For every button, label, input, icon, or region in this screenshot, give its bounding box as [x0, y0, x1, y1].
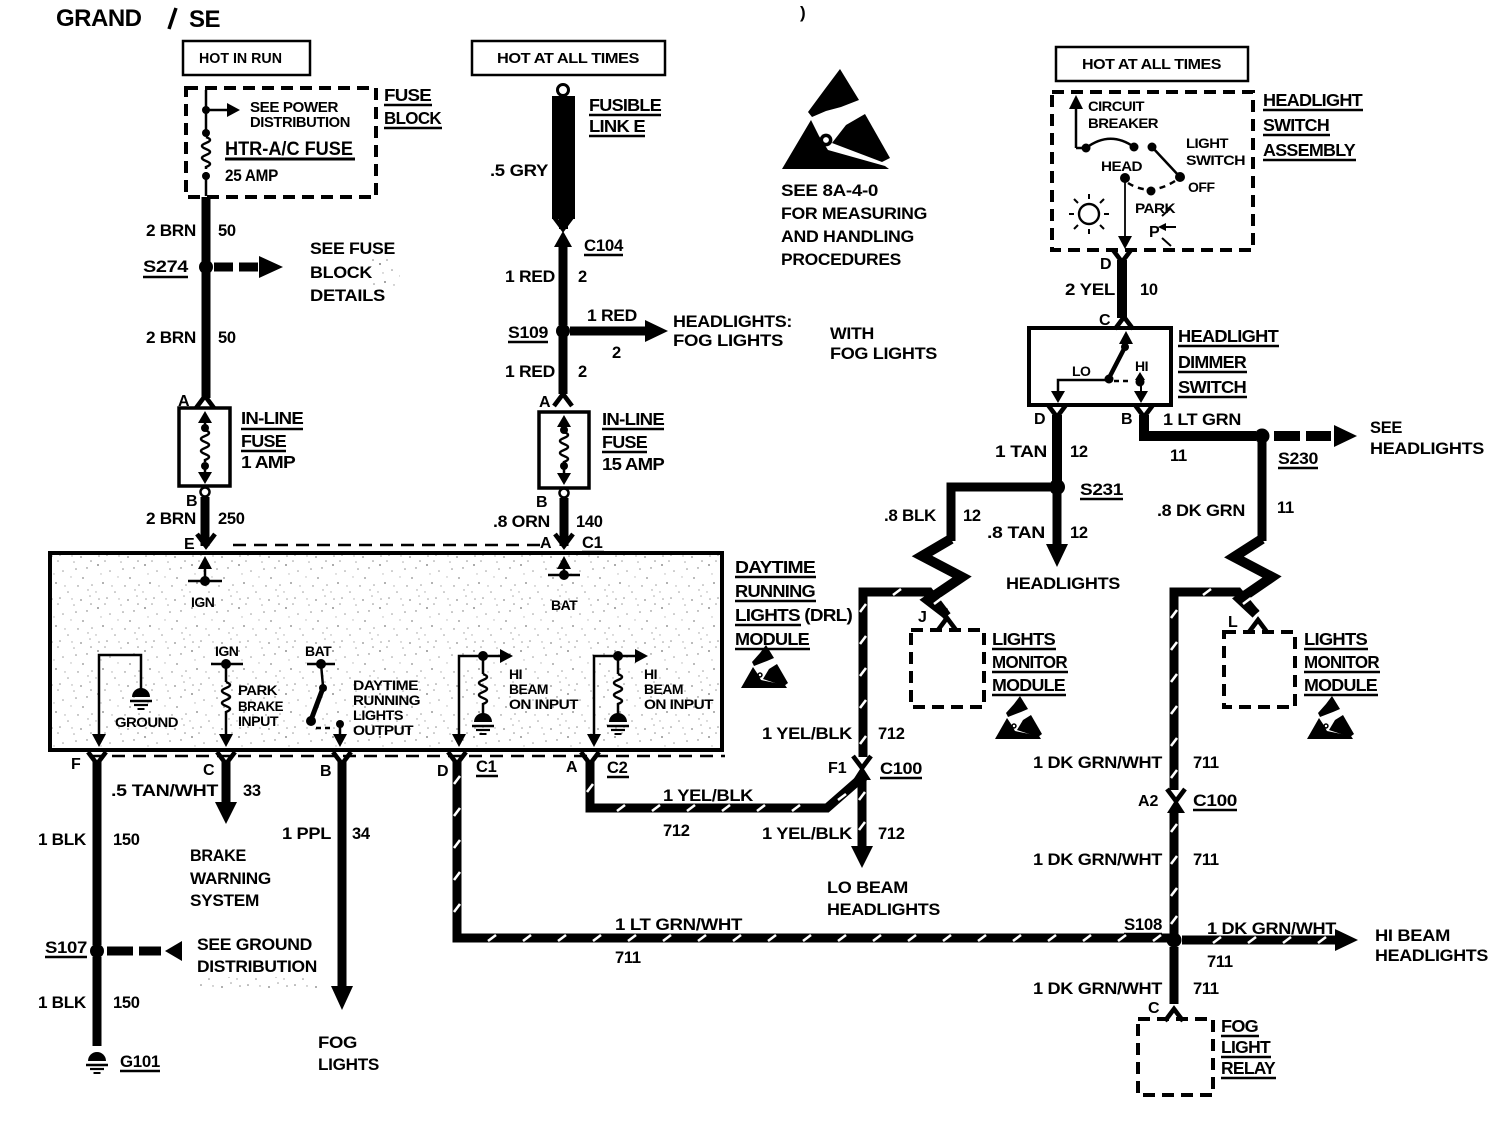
svg-text:1 PPL: 1 PPL: [282, 825, 331, 843]
svg-text:WITH: WITH: [830, 325, 874, 343]
svg-text:SE: SE: [189, 6, 221, 33]
svg-text:GROUND: GROUND: [115, 714, 178, 730]
svg-text:1 DK GRN/WHT: 1 DK GRN/WHT: [1033, 851, 1162, 869]
svg-text:LIGHTS: LIGHTS: [1304, 629, 1367, 649]
svg-text:SWITCH: SWITCH: [1263, 115, 1329, 135]
svg-text:12: 12: [963, 507, 981, 525]
svg-text:HEADLIGHTS:: HEADLIGHTS:: [673, 313, 792, 331]
svg-text:12: 12: [1070, 524, 1088, 542]
svg-text:.8 ORN: .8 ORN: [493, 513, 550, 531]
svg-text:B: B: [1121, 411, 1133, 428]
svg-text:50: 50: [218, 222, 236, 240]
svg-text:1 TAN: 1 TAN: [995, 443, 1047, 461]
svg-text:DAYTIME: DAYTIME: [735, 557, 815, 577]
svg-text:B: B: [536, 494, 548, 511]
svg-text:INPUT: INPUT: [238, 713, 279, 729]
svg-text:ON INPUT: ON INPUT: [644, 696, 714, 712]
svg-text:712: 712: [878, 825, 905, 843]
svg-text:1 DK GRN/WHT: 1 DK GRN/WHT: [1033, 754, 1162, 772]
svg-text:BEAM: BEAM: [644, 681, 683, 697]
svg-text:34: 34: [352, 825, 371, 843]
svg-text:2 YEL: 2 YEL: [1065, 281, 1115, 299]
svg-text:MODULE: MODULE: [1304, 675, 1377, 695]
svg-text:BRAKE: BRAKE: [190, 847, 246, 865]
svg-text:PARK: PARK: [1135, 200, 1175, 216]
svg-text:711: 711: [1193, 851, 1219, 869]
svg-text:1 DK GRN/WHT: 1 DK GRN/WHT: [1207, 920, 1336, 938]
svg-text:25 AMP: 25 AMP: [225, 167, 278, 185]
svg-text:IN-LINE: IN-LINE: [602, 409, 664, 429]
svg-text:711: 711: [1193, 980, 1219, 998]
svg-text:HEADLIGHT: HEADLIGHT: [1263, 90, 1363, 110]
svg-text:BLOCK: BLOCK: [310, 264, 372, 282]
svg-text:LIGHT: LIGHT: [1221, 1037, 1271, 1057]
svg-text:1 LT GRN: 1 LT GRN: [1163, 411, 1241, 429]
svg-text:FOR MEASURING: FOR MEASURING: [781, 205, 927, 223]
svg-text:G101: G101: [120, 1053, 160, 1071]
svg-text:D: D: [437, 763, 449, 780]
svg-text:LO BEAM: LO BEAM: [827, 879, 908, 897]
svg-text:HEADLIGHT: HEADLIGHT: [1178, 326, 1279, 346]
svg-text:LIGHTS: LIGHTS: [353, 707, 403, 723]
svg-text:SEE 8A-4-0: SEE 8A-4-0: [781, 182, 878, 200]
svg-text:HI: HI: [644, 666, 657, 682]
svg-text:711: 711: [1207, 953, 1233, 971]
svg-text:HEADLIGHTS: HEADLIGHTS: [1006, 575, 1120, 593]
svg-text:DISTRIBUTION: DISTRIBUTION: [250, 114, 350, 131]
svg-text:S107: S107: [45, 939, 87, 957]
svg-text:MONITOR: MONITOR: [992, 652, 1068, 672]
svg-text:OFF: OFF: [1188, 179, 1215, 195]
svg-text:33: 33: [243, 782, 261, 800]
svg-text:712: 712: [878, 725, 905, 743]
svg-text:C2: C2: [607, 759, 628, 777]
svg-text:1 RED: 1 RED: [587, 307, 637, 325]
svg-text:2: 2: [578, 363, 587, 381]
svg-text:C1: C1: [582, 534, 603, 552]
svg-text:2 BRN: 2 BRN: [146, 222, 196, 240]
svg-text:A2: A2: [1138, 793, 1159, 810]
svg-text:J: J: [918, 609, 927, 626]
svg-text:S109: S109: [508, 324, 548, 342]
svg-text:FOG: FOG: [1221, 1016, 1258, 1036]
svg-text:1 AMP: 1 AMP: [241, 452, 296, 472]
svg-text:2 BRN: 2 BRN: [146, 329, 196, 347]
svg-text:SYSTEM: SYSTEM: [190, 892, 259, 910]
svg-text:1 YEL/BLK: 1 YEL/BLK: [762, 825, 852, 843]
svg-text:C104: C104: [584, 237, 624, 255]
svg-text:A: A: [540, 535, 552, 552]
svg-text:.5 GRY: .5 GRY: [490, 162, 548, 180]
svg-text:SWITCH: SWITCH: [1186, 152, 1245, 168]
svg-text:C: C: [203, 762, 215, 779]
svg-text:12: 12: [1070, 443, 1088, 461]
svg-text:HI: HI: [1135, 358, 1148, 374]
svg-text:HI: HI: [509, 666, 522, 682]
svg-text:LIGHT: LIGHT: [1186, 135, 1229, 151]
svg-text:HI BEAM: HI BEAM: [1375, 927, 1450, 945]
svg-text:OUTPUT: OUTPUT: [353, 722, 414, 738]
svg-text:BAT: BAT: [305, 643, 332, 659]
svg-text:HTR-A/C FUSE: HTR-A/C FUSE: [225, 139, 353, 160]
svg-text:11: 11: [1170, 447, 1187, 465]
svg-text:2: 2: [578, 268, 587, 286]
svg-text:PARK: PARK: [238, 682, 277, 698]
svg-text:LINK E: LINK E: [589, 116, 645, 136]
svg-text:HEAD: HEAD: [1101, 158, 1142, 174]
svg-text:CIRCUIT: CIRCUIT: [1088, 98, 1145, 114]
svg-text:1 RED: 1 RED: [505, 363, 555, 381]
svg-text:DISTRIBUTION: DISTRIBUTION: [197, 958, 317, 976]
svg-text:2: 2: [612, 344, 621, 362]
svg-text:BRAKE: BRAKE: [238, 698, 283, 714]
svg-text:DAYTIME: DAYTIME: [353, 677, 418, 693]
svg-text:F: F: [71, 756, 81, 773]
svg-text:SEE FUSE: SEE FUSE: [310, 240, 395, 258]
svg-text:S230: S230: [1278, 450, 1318, 468]
svg-text:MODULE: MODULE: [735, 629, 809, 649]
svg-text:SEE GROUND: SEE GROUND: [197, 936, 312, 954]
svg-text:C: C: [1148, 1000, 1160, 1017]
svg-text:IGN: IGN: [191, 594, 215, 610]
svg-text:DETAILS: DETAILS: [310, 287, 385, 305]
svg-text:S108: S108: [1124, 916, 1162, 934]
svg-text:IN-LINE: IN-LINE: [241, 408, 303, 428]
svg-text:FUSE: FUSE: [241, 431, 286, 451]
svg-text:711: 711: [615, 949, 641, 967]
svg-text:PROCEDURES: PROCEDURES: [781, 251, 901, 269]
svg-text:.5 TAN/WHT: .5 TAN/WHT: [111, 782, 218, 800]
svg-text:FUSIBLE: FUSIBLE: [589, 95, 661, 115]
svg-text:HEADLIGHTS: HEADLIGHTS: [1375, 947, 1488, 965]
svg-text:10: 10: [1140, 281, 1158, 299]
svg-text:FOG LIGHTS: FOG LIGHTS: [830, 345, 937, 363]
svg-text:.8 BLK: .8 BLK: [884, 507, 936, 525]
svg-text:11: 11: [1277, 499, 1294, 517]
svg-text:RELAY: RELAY: [1221, 1058, 1276, 1078]
svg-text:B: B: [320, 763, 332, 780]
svg-text:BREAKER: BREAKER: [1088, 115, 1158, 131]
svg-text:140: 140: [576, 513, 603, 531]
svg-text:LIGHTS: LIGHTS: [318, 1056, 379, 1074]
svg-text:150: 150: [113, 994, 140, 1012]
svg-text:E: E: [184, 536, 195, 553]
svg-text:MODULE: MODULE: [992, 675, 1065, 695]
svg-text:): ): [800, 3, 806, 22]
svg-text:711: 711: [1193, 754, 1219, 772]
svg-text:50: 50: [218, 329, 236, 347]
svg-text:A: A: [539, 394, 551, 411]
svg-text:1 LT GRN/WHT: 1 LT GRN/WHT: [615, 916, 742, 934]
svg-text:DIMMER: DIMMER: [1178, 352, 1247, 372]
svg-text:FUSE: FUSE: [602, 432, 647, 452]
svg-text:GRAND: GRAND: [56, 5, 142, 32]
svg-text:1 YEL/BLK: 1 YEL/BLK: [762, 725, 852, 743]
svg-text:2 BRN: 2 BRN: [146, 510, 196, 528]
svg-text:L: L: [1228, 614, 1238, 631]
svg-text:ASSEMBLY: ASSEMBLY: [1263, 140, 1356, 160]
svg-text:FUSE: FUSE: [384, 85, 431, 105]
svg-text:S231: S231: [1080, 481, 1123, 499]
svg-text:HOT IN RUN: HOT IN RUN: [199, 51, 282, 67]
svg-text:BAT: BAT: [551, 597, 578, 613]
svg-text:15 AMP: 15 AMP: [602, 454, 665, 474]
svg-text:A: A: [566, 759, 578, 776]
svg-text:C100: C100: [1193, 792, 1237, 810]
svg-text:1 BLK: 1 BLK: [38, 994, 86, 1012]
svg-text:BEAM: BEAM: [509, 681, 548, 697]
svg-text:FOG: FOG: [318, 1034, 357, 1052]
svg-text:HOT AT ALL TIMES: HOT AT ALL TIMES: [497, 50, 639, 67]
svg-text:.8 TAN: .8 TAN: [987, 524, 1045, 542]
svg-text:250: 250: [218, 510, 245, 528]
svg-text:LIGHTS: LIGHTS: [992, 629, 1055, 649]
svg-text:LO: LO: [1072, 363, 1091, 379]
svg-text:HEADLIGHTS: HEADLIGHTS: [827, 901, 940, 919]
svg-text:MONITOR: MONITOR: [1304, 652, 1380, 672]
svg-text:D: D: [1100, 256, 1112, 273]
svg-text:RUNNING: RUNNING: [353, 692, 421, 708]
svg-text:1 DK GRN/WHT: 1 DK GRN/WHT: [1033, 980, 1162, 998]
svg-text:RUNNING: RUNNING: [735, 581, 815, 601]
svg-text:C100: C100: [880, 760, 922, 778]
svg-text:P: P: [1149, 224, 1160, 241]
svg-text:FOG LIGHTS: FOG LIGHTS: [673, 332, 783, 350]
svg-text:S274: S274: [143, 258, 189, 276]
svg-text:1 BLK: 1 BLK: [38, 831, 86, 849]
svg-text:1 YEL/BLK: 1 YEL/BLK: [663, 787, 753, 805]
svg-text:150: 150: [113, 831, 140, 849]
svg-text:BLOCK: BLOCK: [384, 108, 442, 128]
svg-text:1 RED: 1 RED: [505, 268, 555, 286]
svg-text:SWITCH: SWITCH: [1178, 377, 1246, 397]
svg-text:B: B: [186, 493, 198, 510]
svg-text:D: D: [1034, 411, 1046, 428]
svg-text:C1: C1: [476, 758, 497, 776]
svg-text:IGN: IGN: [215, 643, 239, 659]
svg-text:LIGHTS (DRL): LIGHTS (DRL): [735, 605, 852, 625]
svg-text:AND HANDLING: AND HANDLING: [781, 228, 914, 246]
svg-text:F1: F1: [828, 760, 847, 777]
svg-text:ON INPUT: ON INPUT: [509, 696, 579, 712]
svg-text:712: 712: [663, 822, 690, 840]
svg-text:HOT AT ALL TIMES: HOT AT ALL TIMES: [1082, 56, 1221, 73]
svg-text:.8 DK GRN: .8 DK GRN: [1157, 502, 1245, 520]
svg-text:WARNING: WARNING: [190, 870, 271, 888]
svg-text:HEADLIGHTS: HEADLIGHTS: [1370, 440, 1484, 458]
svg-text:SEE: SEE: [1370, 419, 1402, 437]
